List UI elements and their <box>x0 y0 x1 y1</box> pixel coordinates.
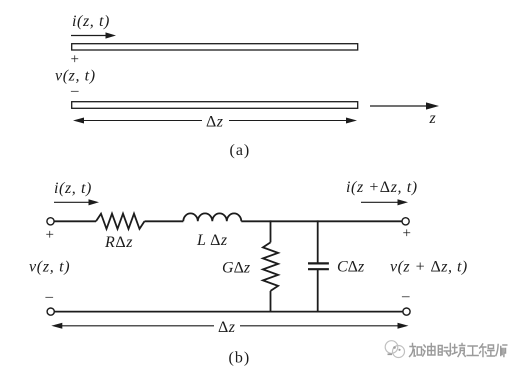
svg-text:+: + <box>46 227 54 243</box>
svg-text:RΔz: RΔz <box>104 234 133 251</box>
svg-text:v(z + Δz, t): v(z + Δz, t) <box>390 259 468 276</box>
svg-text:+: + <box>71 52 79 68</box>
char 频 <box>452 344 465 357</box>
current arrow (b) right <box>361 199 408 205</box>
wire: inductor to right terminal <box>241 220 402 222</box>
svg-text:CΔz: CΔz <box>337 259 365 276</box>
shunt conductance branch wire top <box>270 220 272 242</box>
terminal circle top-right <box>402 218 409 225</box>
svg-text:L Δz: L Δz <box>196 232 228 249</box>
svg-text:–: – <box>70 83 79 99</box>
svg-text:(b): (b) <box>229 350 251 367</box>
svg-text:i(z, t): i(z, t) <box>72 13 110 30</box>
wire: resistor to inductor <box>145 220 184 222</box>
current arrow (a) <box>71 32 116 38</box>
svg-text:v(z, t): v(z, t) <box>55 68 96 85</box>
wire: terminal to resistor <box>54 220 96 222</box>
current arrow (b) left <box>54 199 99 205</box>
char 油 <box>423 344 435 357</box>
capacitor branch wire bottom <box>317 270 319 313</box>
terminal circle bottom-right <box>403 308 410 315</box>
resistor G-delta-z (vertical) <box>263 242 278 291</box>
svg-text:i(z +Δz, t): i(z +Δz, t) <box>346 179 418 196</box>
char 加 <box>410 344 422 357</box>
bottom wire (b) <box>54 311 403 313</box>
char 程 <box>480 344 495 357</box>
terminal circle bottom-left <box>47 308 54 315</box>
inductor L-delta-z <box>183 213 241 221</box>
char 工 <box>467 346 478 356</box>
svg-text:v(z, t): v(z, t) <box>29 259 70 276</box>
capacitor branch wire top <box>317 220 319 263</box>
svg-text:z: z <box>429 110 437 127</box>
svg-text:GΔz: GΔz <box>222 260 251 277</box>
capacitor C-delta-z plates <box>308 262 329 264</box>
svg-text:–: – <box>45 289 54 305</box>
char 师 <box>496 345 507 357</box>
char 射 <box>438 344 450 356</box>
top conductor <box>72 44 358 50</box>
resistor R-delta-z <box>96 214 145 229</box>
svg-text:–: – <box>401 289 410 305</box>
svg-text:(a): (a) <box>230 142 251 159</box>
watermark text 加油射频工程师 <box>410 344 507 357</box>
delta-z dimension arrow (a) <box>73 118 357 124</box>
shunt conductance branch wire bottom <box>270 291 272 312</box>
svg-text:+: + <box>403 225 411 241</box>
terminal circle top-left <box>47 218 54 225</box>
z axis arrow <box>370 102 439 109</box>
bottom conductor <box>72 102 358 109</box>
svg-text:Δz: Δz <box>206 114 224 131</box>
svg-text:i(z, t): i(z, t) <box>54 180 92 197</box>
svg-text:Δz: Δz <box>218 319 236 336</box>
delta-z dimension arrow (b) <box>51 323 408 329</box>
watermark logo icon <box>385 341 404 358</box>
